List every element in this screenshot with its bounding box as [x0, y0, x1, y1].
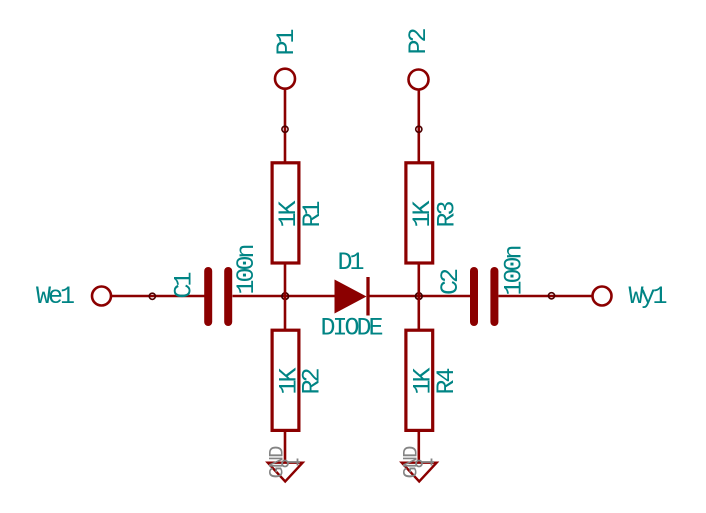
svg-text:R2: R2 — [298, 368, 327, 394]
capacitor C1 — [208, 271, 228, 322]
wire C2 to Wy1 — [499, 295, 593, 298]
resistor R1 — [272, 163, 299, 263]
svg-text:C2: C2 — [436, 269, 465, 295]
wire P1 to R1 — [284, 89, 287, 162]
resistor R4 — [406, 330, 433, 430]
wire P2 to R3 — [417, 90, 420, 163]
connector Wy1 — [593, 287, 612, 306]
svg-text:P2: P2 — [404, 28, 433, 54]
junction node 1 — [282, 293, 289, 300]
connector P1 — [275, 69, 295, 89]
diode D1 — [335, 277, 369, 316]
wire R3 to node 2 — [417, 263, 420, 296]
ground symbol left — [268, 463, 303, 482]
wire R4 to ground (right) — [417, 430, 420, 463]
svg-text:GND: GND — [267, 446, 290, 479]
svg-text:100n: 100n — [500, 246, 529, 295]
wire C1 to diode D1 — [233, 295, 335, 298]
ground symbol right — [402, 463, 437, 482]
pin-end circle on P1 wire — [282, 126, 288, 132]
hidden pin marker right GND — [416, 459, 434, 467]
resistor R2 — [272, 330, 299, 430]
wire diode to C2 — [370, 295, 471, 298]
pin-end circle on input wire — [149, 293, 155, 299]
wire node 2 to R4 — [417, 296, 420, 330]
junction node 2 — [416, 293, 423, 300]
wire R2 to ground (left) — [284, 430, 287, 463]
hidden pin marker left GND — [282, 459, 300, 467]
svg-text:D1: D1 — [338, 248, 364, 277]
wire R1 to node 1 — [284, 263, 287, 296]
capacitor C2 — [474, 271, 494, 322]
connector P2 — [409, 70, 429, 90]
connector We1 — [92, 287, 111, 306]
svg-text:100n: 100n — [232, 245, 261, 294]
svg-text:C1: C1 — [170, 272, 199, 298]
svg-text:Wy1: Wy1 — [629, 282, 667, 311]
pin-end circle on P2 wire — [416, 126, 422, 132]
svg-text:We1: We1 — [36, 282, 74, 311]
svg-text:R4: R4 — [432, 368, 461, 394]
svg-text:DIODE: DIODE — [321, 314, 383, 343]
pin-end circle on output wire — [548, 293, 554, 299]
svg-text:R1: R1 — [298, 201, 327, 227]
svg-text:GND: GND — [401, 446, 424, 479]
svg-text:R3: R3 — [433, 201, 462, 227]
wire node 1 to R2 — [284, 296, 287, 330]
resistor R3 — [406, 163, 433, 263]
wire We1 to C1 — [111, 295, 205, 298]
svg-text:P1: P1 — [272, 29, 301, 55]
